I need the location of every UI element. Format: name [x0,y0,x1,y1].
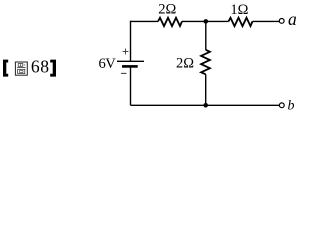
wire top-middle [182,20,229,22]
node junction dot top [204,19,209,24]
svg-text:68: 68 [31,57,50,77]
svg-text:6V: 6V [99,56,117,72]
battery plus sign [123,49,129,55]
wire middle branch lower [205,74,207,105]
caption character tu (figure) [15,62,27,75]
svg-text:2Ω: 2Ω [158,2,176,18]
battery V1 positive plate [117,60,144,62]
caption left bracket [3,60,8,77]
resistor R2 1ohm [229,18,253,26]
terminal b circle [279,103,284,108]
wire bottom horizontal [131,104,280,106]
battery minus sign [121,72,127,74]
wire top-left horizontal [131,20,159,22]
svg-text:a: a [288,9,297,29]
node junction dot bottom [203,103,208,108]
wire left branch lower [130,66,132,105]
battery V1 negative plate [122,65,138,68]
wire left branch upper [130,21,132,62]
resistor R1 2ohm top [158,18,182,26]
svg-text:1Ω: 1Ω [230,2,248,18]
wire top-right [253,20,280,22]
svg-text:2Ω: 2Ω [176,56,194,72]
wire middle branch upper [205,21,207,50]
svg-text:b: b [288,99,295,114]
terminal a circle [279,19,284,24]
caption right bracket [50,60,56,77]
resistor R3 2ohm middle vertical [201,50,210,75]
